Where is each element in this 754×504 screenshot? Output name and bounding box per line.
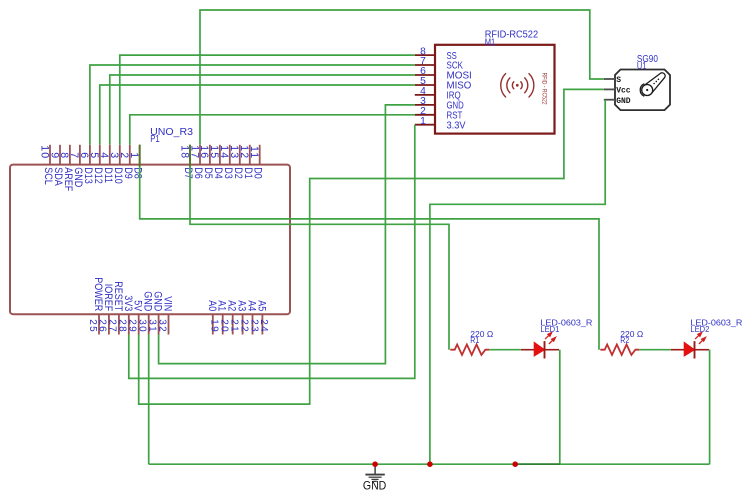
RFID pin 2 RST stub [415, 114, 435, 116]
wire R2 to LED2 [639, 349, 671, 351]
RFID antenna icon [501, 74, 534, 97]
UNO top pin 7 GND stub [79, 145, 81, 165]
svg-text:23: 23 [248, 319, 259, 333]
svg-text:GND: GND [363, 479, 387, 493]
servo pin Vcc stub [604, 88, 615, 90]
UNO bottom pin 32 VIN stub [168, 314, 170, 334]
svg-text:22: 22 [238, 319, 249, 333]
UNO top pin 18 D7 stub [189, 145, 191, 165]
svg-text:29: 29 [127, 319, 138, 333]
servo pin S stub [604, 78, 615, 80]
UNO bottom pin 27 RESET stub [118, 314, 120, 334]
wire overlap on D7 stub [189, 145, 191, 167]
servo horn icon [640, 73, 665, 96]
UNO top pin 13 D2 stub [239, 145, 241, 165]
wire UNO GND30 to ground bus [148, 335, 150, 465]
UNO bottom pin 28 3V3 stub [128, 314, 130, 334]
UNO top pin 11 D0 stub [259, 145, 261, 165]
UNO bottom pin 23 A4 stub [252, 314, 254, 334]
RFID pin 5 MISO stub [415, 84, 435, 86]
UNO top pin 6 D13 stub [89, 145, 91, 165]
RFID pin 4 IRQ stub [415, 94, 435, 96]
UNO bottom pin 19 A0 stub [212, 314, 214, 334]
wire D6 to servo S [200, 10, 604, 145]
LED LED2 emission arrows [695, 333, 705, 345]
svg-text:20: 20 [219, 319, 230, 333]
svg-text:25: 25 [87, 319, 98, 333]
svg-text:P1: P1 [150, 134, 160, 145]
Arduino UNO_R3 P1 body [10, 165, 290, 315]
LED LED1 cathode lead [545, 349, 560, 351]
RFID pin 7 SCK stub [415, 64, 435, 66]
svg-text:RFID - RC522: RFID - RC522 [541, 73, 548, 105]
svg-text:3.3V: 3.3V [447, 120, 466, 131]
UNO top pin 2 D9 stub [129, 145, 131, 165]
UNO top pin 15 D4 stub [219, 145, 221, 165]
wire D9 to RFID RST [130, 115, 415, 145]
svg-text:S: S [616, 76, 621, 85]
RFID pin 6 MOSI stub [415, 74, 435, 76]
UNO top pin 9 SDA stub [59, 145, 61, 165]
LED LED2 cathode bar [694, 341, 696, 358]
LED LED2 cathode lead [695, 349, 710, 351]
svg-text:31: 31 [146, 319, 157, 333]
wire UNO GND31 to RFID GND [159, 105, 415, 364]
RFID pin 8 SS stub [415, 54, 435, 56]
UNO bottom pin 21 A2 stub [232, 314, 234, 334]
svg-text:R2: R2 [620, 335, 629, 345]
UNO bottom pin 22 A3 stub [242, 314, 244, 334]
wire D13 to RFID SCK [90, 65, 415, 145]
svg-text:27: 27 [107, 319, 118, 333]
wire LED1 to ground bus [515, 350, 560, 465]
svg-text:11: 11 [248, 146, 260, 159]
LED LED1 anode lead [521, 349, 534, 351]
LED LED2 anode lead [671, 349, 684, 351]
UNO bottom pin 31 GND stub [158, 314, 160, 334]
RFID-RC522 M1 body [435, 45, 555, 134]
wire D7 to R1 [190, 145, 449, 350]
wire servo GND to ground bus [430, 100, 605, 465]
UNO top pin 16 D5 stub [209, 145, 211, 165]
wire ground bus [149, 463, 710, 465]
UNO top pin 1 D8 stub [139, 145, 141, 165]
svg-text:GND: GND [616, 97, 631, 106]
UNO top pin 17 D6 stub [199, 145, 201, 165]
RFID pin 3 GND stub [415, 104, 435, 106]
wire D12 to RFID MISO [100, 85, 415, 145]
UNO bottom pin 30 GND stub [148, 314, 150, 334]
UNO top pin 3 D10 stub [119, 145, 121, 165]
svg-text:26: 26 [97, 319, 108, 333]
svg-text:1: 1 [128, 152, 140, 159]
UNO bottom pin 20 A1 stub [222, 314, 224, 334]
LED LED1 cathode bar [544, 341, 546, 358]
resistor R1 220ohm [450, 345, 489, 355]
svg-text:1: 1 [420, 116, 426, 127]
svg-text:24: 24 [258, 319, 269, 333]
svg-text:D0: D0 [251, 167, 263, 179]
wire D10 to RFID SS [120, 55, 415, 145]
servo SG90 U1 body [615, 70, 670, 111]
svg-text:R1: R1 [470, 335, 479, 345]
resistor R2 220ohm [600, 345, 639, 355]
UNO bottom pin 25 POWER stub [98, 314, 100, 334]
LED LED1 triangle [534, 342, 544, 356]
ground symbol [365, 464, 384, 481]
svg-text:21: 21 [229, 319, 240, 333]
svg-text:A5: A5 [255, 300, 267, 311]
overlapped bus segment [515, 463, 560, 465]
UNO bottom pin 24 A5 stub [261, 314, 263, 334]
junction node at ground symbol [372, 461, 378, 467]
svg-text:U1: U1 [637, 61, 647, 72]
UNO bottom pin 29 5V stub [138, 314, 140, 334]
UNO bottom pin 26 IOREF stub [108, 314, 110, 334]
svg-text:M1: M1 [485, 37, 496, 48]
svg-text:VIN: VIN [161, 296, 173, 311]
wire UNO 3V3 to RFID 3.3V [129, 125, 415, 379]
wire D8 to R2 [140, 145, 599, 350]
junction node LED1 return / bus [512, 461, 518, 467]
svg-text:LED1: LED1 [540, 324, 559, 334]
UNO top pin 14 D3 stub [229, 145, 231, 165]
wire D11 to RFID MOSI [110, 75, 415, 145]
UNO top pin 10 SCL stub [49, 145, 51, 165]
UNO top pin 4 D11 stub [109, 145, 111, 165]
wire R1 to LED1 [489, 349, 521, 351]
LED LED1 emission arrows [545, 333, 555, 345]
svg-text:30: 30 [137, 319, 148, 333]
svg-text:32: 32 [156, 319, 167, 333]
wire overlap on D8 stub [139, 145, 141, 167]
LED LED2 triangle [684, 342, 694, 356]
RFID pin 1 3.3V stub [415, 124, 435, 126]
UNO top pin 12 D1 stub [249, 145, 251, 165]
wire LED2 to ground bus [709, 350, 711, 465]
svg-text:Vcc: Vcc [616, 87, 631, 96]
svg-text:19: 19 [209, 319, 220, 333]
junction node servo-GND / bus [427, 461, 433, 467]
UNO top pin 8 AREF stub [69, 145, 71, 165]
UNO top pin 5 D12 stub [99, 145, 101, 165]
svg-text:D8: D8 [131, 167, 143, 179]
svg-text:28: 28 [117, 319, 128, 333]
servo pin GND stub [604, 99, 615, 101]
wire UNO 5V to servo Vcc [139, 89, 604, 404]
svg-text:LED2: LED2 [690, 324, 709, 334]
